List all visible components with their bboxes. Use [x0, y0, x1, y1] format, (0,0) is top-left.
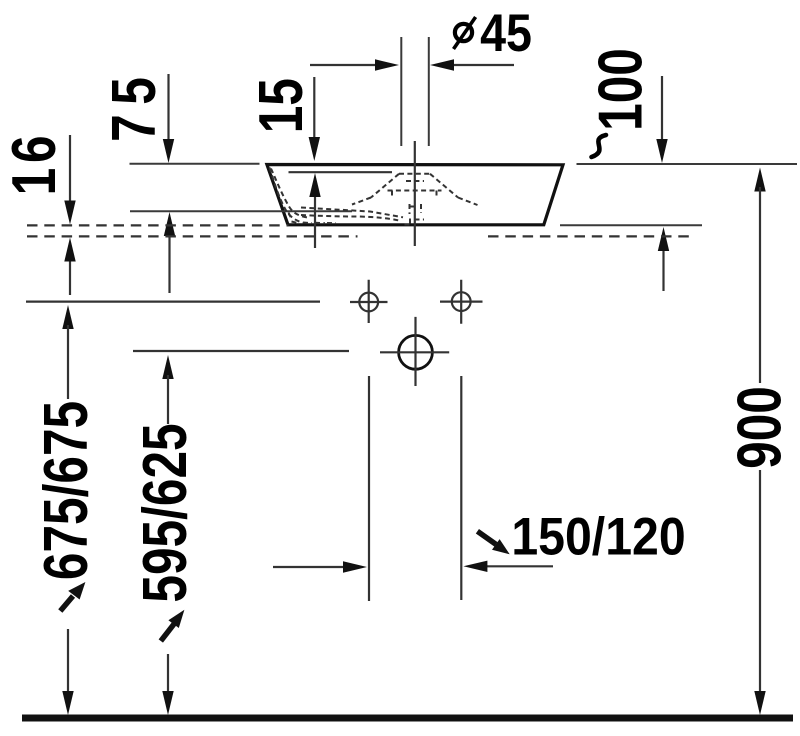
hole left small circle [359, 293, 378, 312]
faucet dome center tick [406, 180, 424, 182]
dim ~100 dimension line down [661, 76, 663, 142]
rim top extension line right [577, 163, 798, 165]
dim 15 up arrow stem [314, 193, 316, 248]
basin hidden bowl bottom lower dashed row [301, 215, 399, 221]
svg-text:150/120: 150/120 [511, 506, 685, 566]
basin inner rim waterline [289, 171, 393, 173]
dim ~100 up arrowhead [658, 227, 669, 251]
svg-text:15: 15 [246, 78, 316, 133]
dim ø45 left arrowhead [375, 59, 399, 70]
hole left crosshair [350, 280, 388, 323]
dim 15 up arrowhead [309, 173, 320, 197]
dim 75 up arrowhead [164, 212, 175, 236]
dim 675/675 up arrowhead [62, 305, 73, 329]
dim 150/120 right arrowhead [463, 561, 487, 572]
drain hole crosshair [380, 317, 449, 386]
dim 900 line lower [759, 470, 761, 700]
label ~100 tilde [592, 135, 607, 157]
dim 150/120 left dimension line [273, 566, 345, 568]
hole right small circle [452, 292, 471, 311]
svg-text:100: 100 [585, 48, 655, 131]
dim 150/120 left extension line [368, 376, 370, 601]
dim 150/120 right extension line [460, 376, 462, 600]
dim ~100 down arrowhead [656, 139, 667, 163]
floor line [22, 715, 793, 722]
dim 900 line upper [759, 187, 761, 383]
faucet dome hidden top edge [399, 173, 430, 175]
svg-text:45: 45 [480, 3, 532, 62]
svg-text:595/625: 595/625 [130, 423, 200, 602]
counter dashed line lower left [27, 235, 358, 237]
dim 675/675 line lower [67, 629, 69, 700]
dim 900 up arrowhead [754, 168, 765, 192]
dim 75 down arrowhead [163, 139, 174, 163]
dim ø45 right dimension line [448, 64, 514, 66]
basin bottom corner hidden scribbles [289, 213, 337, 224]
dim 900 down arrowhead [754, 691, 765, 715]
dim 675/675 leader arrow [60, 596, 73, 611]
counter dashed line lower right [488, 235, 692, 237]
dim 15 down arrowhead [309, 137, 320, 161]
reference line drain level [133, 350, 349, 352]
label ø45 diameter glyph circle [455, 24, 472, 41]
svg-text:675/675: 675/675 [31, 401, 101, 580]
basin hidden inner contour upper (dashed) [271, 169, 309, 218]
basin bottom extension line right [560, 224, 702, 226]
dim 595/625 up arrowhead [162, 355, 173, 379]
dim ø45 left dimension line [310, 64, 380, 66]
dim 675/675 down arrowhead [62, 691, 73, 715]
dim 595/625 down arrowhead [162, 691, 173, 715]
dim 595/625 leader arrow [161, 624, 174, 641]
dim ø45 right extension line [428, 37, 430, 146]
basin hidden bowl bottom upper dashed row [301, 208, 403, 218]
dim 675/675 line upper [67, 325, 69, 399]
dim 75 up arrow stem [168, 232, 170, 293]
faucet dome tier line [388, 191, 442, 197]
dim 150/120 right dimension line [485, 565, 553, 567]
dim 595/625 line upper [167, 375, 169, 424]
dim 595/625 line lower [167, 654, 169, 700]
reference line hole level [26, 301, 320, 303]
rim top extension line left [130, 163, 260, 165]
drain hidden lines [405, 204, 425, 225]
faucet axis centerline [414, 141, 416, 246]
dim 16 up arrowhead [64, 238, 75, 262]
dim 150/120 left arrowhead [343, 561, 367, 572]
dim 16 dimension line down [69, 135, 71, 203]
faucet dome right slant [430, 174, 478, 205]
dim 15 dimension line down [313, 77, 315, 140]
dim ~100 up arrow stem [662, 247, 664, 291]
faucet dome left slant [352, 174, 399, 205]
label ø45 diameter glyph slash [454, 17, 476, 49]
basin hidden inner contour lower (dashed) [270, 168, 304, 223]
counter dashed line left upper [27, 224, 289, 226]
drain hole large circle [399, 335, 433, 369]
svg-text:900: 900 [724, 386, 794, 469]
dim 75 dimension line down [167, 74, 169, 142]
dim ø45 left extension line [400, 37, 402, 146]
dim 16 up arrow stem [69, 258, 71, 295]
dim 150/120 leader arrow [477, 531, 496, 544]
hole right crosshair [440, 280, 483, 324]
dim 16 down arrowhead [64, 201, 75, 225]
basin inner bottom reference line (solid part) [130, 210, 352, 212]
svg-text:75: 75 [99, 68, 169, 142]
dim ø45 right arrowhead [430, 59, 454, 70]
basin outline [267, 165, 563, 225]
svg-text:16: 16 [0, 131, 68, 196]
